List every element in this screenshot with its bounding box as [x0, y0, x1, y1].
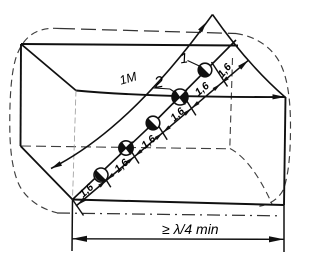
beam line with two arrows [51, 15, 213, 169]
hole C3 (half-filled) [146, 116, 160, 130]
arrowhead at right end of front top edge [273, 94, 286, 99]
tick t0 (corner) [73, 200, 84, 216]
chain arrow pointing up-right at t4 [126, 157, 134, 164]
beam upper-right arrowhead [198, 22, 206, 32]
svg-text:1,6: 1,6 [215, 61, 234, 80]
block bottom-left connection edge [21, 146, 73, 200]
tick t3 [155, 121, 167, 140]
cylinder bottom silhouette dash-dot line [57, 213, 277, 216]
right extension line of bottom dimension [283, 205, 285, 252]
hole C2 (quartered) [172, 89, 188, 105]
tick t5 [99, 168, 111, 187]
leader from label 1 to hole C1 [188, 61, 202, 68]
underline of label 2 [152, 88, 170, 89]
chain dimension bottom arrowhead [78, 197, 87, 205]
block front top edge [76, 91, 286, 98]
hidden dashed vertical [230, 58, 233, 149]
tick t4 [127, 145, 139, 164]
bottom dimension right arrowhead [269, 236, 284, 242]
chain arrow pointing down-left at t4 [135, 149, 143, 156]
bottom dimension line [72, 238, 284, 241]
block back left edge [20, 44, 23, 146]
svg-text:1,6: 1,6 [139, 133, 158, 152]
X strokes over hole C2 [173, 90, 187, 105]
X strokes over hole C4 [120, 142, 133, 155]
hidden dashed curve to bottom edge [230, 149, 272, 205]
svg-text:1,6: 1,6 [168, 105, 187, 124]
chain arrow pointing up-right at t1 [213, 84, 221, 91]
block front left edge (faint) [73, 91, 77, 200]
leader from label 2 to hole C2 [170, 89, 177, 94]
chain arrow pointing up-right at t2 [183, 108, 191, 115]
chain arrow pointing down-left at t3 [163, 125, 171, 132]
chain dimension top arrowhead [238, 60, 248, 69]
hole C1 (half-filled) [198, 63, 212, 77]
hole C5 (half-filled) [94, 168, 108, 182]
chain arrow pointing down-left at t1 [221, 76, 229, 83]
block bottom edge [73, 200, 285, 206]
reflected beam line to top-right corner [213, 15, 286, 98]
chain dimension line along holes [76, 60, 248, 206]
chain arrow pointing up-right at t3 [155, 133, 163, 140]
chain arrow pointing down-left at t5 [106, 173, 114, 180]
hole axis diagonal line [73, 40, 237, 200]
cylinder right end cap dashed arc [236, 34, 291, 207]
svg-text:1M: 1M [118, 69, 139, 87]
hole C4 (quartered) [119, 141, 133, 155]
cylinder axis dashed line [21, 146, 230, 149]
chain arrow pointing up-right at t5 [98, 180, 106, 187]
cylinder top silhouette dashed line [60, 29, 236, 34]
svg-text:1,6: 1,6 [77, 181, 96, 200]
chain arrow pointing down-left at t2 [191, 101, 199, 108]
svg-text:1: 1 [179, 49, 189, 66]
tick t2 [184, 96, 196, 115]
block back top edge [21, 44, 238, 46]
left extension line of bottom dimension [71, 200, 74, 252]
block front right edge [284, 97, 286, 205]
tick t1 [212, 62, 228, 87]
bottom dimension left arrowhead [72, 236, 87, 242]
beam lower-left arrowhead [51, 161, 62, 168]
cylinder left end cap dashed arc [10, 28, 60, 213]
svg-text:≥ λ/4 min: ≥ λ/4 min [162, 221, 219, 237]
block top-left connection edge [21, 44, 76, 91]
